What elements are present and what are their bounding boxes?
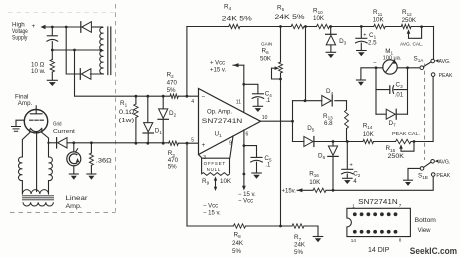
resistor R1 <box>119 96 138 143</box>
wire: tube cathode center lead <box>36 132 38 192</box>
tube grid dashes <box>30 119 44 121</box>
svg-text:Bottom: Bottom <box>415 218 436 224</box>
heater choke coil right <box>49 157 53 194</box>
wire: R16 to S1B peak contact <box>326 176 433 190</box>
resistor R11 <box>373 9 386 29</box>
svg-text:10K: 10K <box>363 131 375 138</box>
wire: D5 branch <box>293 141 434 143</box>
switch S1A <box>414 55 453 79</box>
R9 wiper to -Vcc <box>202 176 232 191</box>
DIP pins top row (1-7) <box>353 212 397 216</box>
wire: S1B common to ground <box>408 168 420 180</box>
switch linkage dashed <box>424 64 426 161</box>
svg-text:AVG.: AVG. <box>438 159 450 165</box>
svg-text:4: 4 <box>191 99 194 105</box>
resistor 10 ohm 10 w <box>31 50 55 80</box>
label: -15v -Vcc (pin 6) <box>238 192 256 204</box>
svg-text:SeekIC.com: SeekIC.com <box>410 246 457 256</box>
diode D6 <box>318 142 338 191</box>
transformer T1 primary coil <box>100 27 104 73</box>
rectifier diode top <box>80 22 82 33</box>
svg-text:+: + <box>350 162 353 168</box>
svg-text:10: 10 <box>262 115 268 121</box>
wire: D4 branch <box>293 100 347 102</box>
resistor R2 <box>167 72 179 99</box>
wire: output node vertical <box>292 101 294 142</box>
svg-text:1: 1 <box>352 203 355 208</box>
wire: sense line to R3 <box>67 142 169 144</box>
pin 10 output lead <box>261 115 293 121</box>
DIP pins bottom row (8-14) <box>353 230 397 234</box>
op-amp U1 <box>199 89 261 155</box>
ground: .36 ohm resistor <box>87 173 96 175</box>
wire: non-inverting input (pin 5) <box>178 142 198 144</box>
svg-text:Op. Amp.: Op. Amp. <box>207 109 232 115</box>
pot R15 PEAK CAL <box>386 131 421 160</box>
ground: C1 <box>357 50 367 52</box>
resistor R14 <box>363 123 375 144</box>
wire: S1A peak contact to R15 <box>432 77 434 142</box>
capacitor C5 <box>244 146 272 173</box>
svg-text:PEAK: PEAK <box>439 73 453 79</box>
svg-text:− 15 v.: − 15 v. <box>203 211 221 217</box>
label: Grid Current <box>53 122 75 135</box>
rectifier diode bottom <box>79 69 81 80</box>
wire: center-tap sense to op-amp <box>75 50 171 96</box>
svg-text:10K: 10K <box>220 178 232 185</box>
label: -Vcc -15v (R9) <box>203 204 221 217</box>
svg-text:AVG. CAL.: AVG. CAL. <box>400 41 423 47</box>
svg-text:SN72741N: SN72741N <box>358 197 398 206</box>
tube plate <box>30 106 42 114</box>
resistor R5 <box>275 5 306 29</box>
junction dots: cathode sense line <box>47 141 93 144</box>
peak detector ladder verticals <box>376 68 408 114</box>
svg-text:Linear: Linear <box>66 195 88 202</box>
wire: HV supply + output rail <box>41 25 103 29</box>
wire: R6 to bottom rail <box>280 79 282 226</box>
svg-text:Amp.: Amp. <box>66 203 83 210</box>
diode D1 <box>143 96 162 143</box>
DIP-14 body <box>347 208 411 236</box>
svg-text:− 15 v.: − 15 v. <box>238 192 256 198</box>
svg-text:24K: 24K <box>294 242 306 249</box>
wire: inverting input (pin 4) <box>178 95 198 97</box>
svg-text:14 DIP: 14 DIP <box>368 247 390 254</box>
wire: rail to S1A AVG contact <box>433 27 435 60</box>
resistor .36 ohm <box>89 143 112 174</box>
meter M grid-current <box>67 143 81 174</box>
svg-text:+: + <box>32 23 36 30</box>
wire: +15v supply to R16 <box>282 188 314 194</box>
junction dot: C1 node <box>360 25 363 28</box>
pin 9 offset lead <box>229 136 233 158</box>
svg-text:+: + <box>363 33 366 39</box>
capacitor C3 <box>376 81 408 98</box>
wire: pin5 node to bottom rail <box>186 143 188 226</box>
svg-text:250K: 250K <box>388 153 405 160</box>
svg-text:View: View <box>418 228 432 234</box>
wire: grid current line <box>49 142 57 144</box>
ground: C4 <box>253 105 263 107</box>
junction dot: R12 bracket <box>420 25 423 28</box>
svg-text:+15 v.: +15 v. <box>210 68 226 74</box>
ground: D3 <box>326 51 336 53</box>
junction dots: output node <box>291 99 306 122</box>
wire: meter plus to switch <box>397 67 420 69</box>
tube grid lead and ground <box>12 120 25 131</box>
svg-text:−: − <box>202 93 206 100</box>
capacitor C2 <box>342 142 361 186</box>
svg-text:5%: 5% <box>294 249 303 256</box>
gain pot R6 <box>260 27 283 80</box>
resistor R4 <box>222 4 253 29</box>
svg-text:PEAK CAL.: PEAK CAL. <box>392 131 420 137</box>
svg-text:100 μa.: 100 μa. <box>383 56 402 62</box>
wire: bottom feedback rail <box>187 226 318 236</box>
capacitor C-filter <box>47 27 58 50</box>
svg-text:− Vcc: − Vcc <box>238 198 253 204</box>
svg-text:+ Vcc: + Vcc <box>210 60 225 66</box>
junction dots: HV rectifier nodes <box>51 26 103 52</box>
svg-text:0.1Ω: 0.1Ω <box>119 109 135 116</box>
svg-text:NULL: NULL <box>207 167 222 172</box>
svg-text:250K: 250K <box>402 17 417 24</box>
wire: feedback left vertical <box>186 27 188 97</box>
diode D2 <box>158 96 177 143</box>
svg-text:Supply: Supply <box>12 35 28 42</box>
svg-text:Amp.: Amp. <box>18 100 33 107</box>
resistor R10 <box>313 8 330 29</box>
svg-text:24K 5%: 24K 5% <box>275 14 306 21</box>
transformer T2 top winding <box>22 190 48 194</box>
svg-text:6: 6 <box>246 131 249 137</box>
label: High Voltage Supply <box>12 22 36 42</box>
ground: C5 <box>252 172 261 174</box>
junction dots: D5/R13 net <box>332 140 416 143</box>
svg-text:.1: .1 <box>265 163 271 169</box>
junction dots: non-inverting input node <box>135 142 189 145</box>
svg-text:7: 7 <box>399 203 402 208</box>
capacitor C4 <box>244 84 272 106</box>
wire: center-tap return <box>52 49 101 51</box>
svg-text:24K 5%: 24K 5% <box>222 16 253 23</box>
svg-text:14: 14 <box>351 238 357 243</box>
svg-text:6.8: 6.8 <box>324 120 333 127</box>
diode D5 <box>304 125 315 147</box>
svg-text:SN72741N: SN72741N <box>202 118 243 125</box>
svg-text:10K: 10K <box>373 17 385 24</box>
DIP pin labels <box>351 203 402 243</box>
tube V1 Final Amp envelope <box>24 110 47 133</box>
wire: meter minus to ground <box>361 60 383 79</box>
pin 11 V+ lead <box>236 65 244 112</box>
svg-text:470: 470 <box>167 80 178 87</box>
svg-text:AVG.: AVG. <box>439 59 451 65</box>
svg-text:11: 11 <box>236 100 241 106</box>
pin 6 V- lead <box>242 130 249 191</box>
diode D4 <box>322 88 334 106</box>
ground: S1B <box>404 179 413 181</box>
ground: meter minus <box>356 79 365 81</box>
label: Bottom View <box>415 218 436 234</box>
svg-text:24K: 24K <box>232 240 244 247</box>
svg-text:10K: 10K <box>313 15 325 22</box>
pot R12 AVG CAL <box>400 9 423 47</box>
svg-text:PEAK: PEAK <box>436 173 450 179</box>
svg-text:GAIN: GAIN <box>261 41 272 46</box>
svg-text:4: 4 <box>353 178 357 185</box>
wire: rail to D4 branch <box>305 27 307 101</box>
heater choke coil left <box>19 157 23 194</box>
junction dots: meter terminals <box>375 66 409 69</box>
svg-text:5%: 5% <box>167 87 176 94</box>
resistor R13 <box>323 101 349 142</box>
tube cathode arc <box>30 128 41 131</box>
wire: rectifier cathode bus <box>66 27 103 74</box>
resistor R16 <box>309 170 326 192</box>
svg-text:OFFSET: OFFSET <box>204 161 226 166</box>
junction dot: V+ / C4 node <box>242 83 245 86</box>
svg-text:(1w): (1w) <box>119 118 135 124</box>
svg-text:2.5: 2.5 <box>368 39 377 46</box>
resistor R3 <box>168 141 179 171</box>
junction dots: inverting input node <box>135 95 189 98</box>
diode D7 <box>376 109 408 127</box>
junction dot: D3 node <box>329 25 332 28</box>
junction dot: R5/R10/D4 node <box>304 25 307 28</box>
ground: grid meter <box>69 173 78 175</box>
junction dots: R6 wiper and bottom <box>279 78 282 228</box>
label: +Vcc +15v arrow <box>210 60 244 73</box>
svg-text:9: 9 <box>229 141 232 147</box>
transformer T1 core <box>108 27 111 75</box>
wire: top feedback rail <box>187 26 434 28</box>
svg-text:8: 8 <box>399 238 402 243</box>
svg-text:Grid: Grid <box>53 122 62 128</box>
transformer T2 bottom winding <box>23 202 53 206</box>
svg-text:5%: 5% <box>232 248 241 255</box>
svg-text:5%: 5% <box>168 164 177 171</box>
pin 3 offset lead <box>199 155 207 161</box>
ground: R7 <box>313 236 323 238</box>
ground: 10 ohm resistor <box>47 79 57 81</box>
svg-text:.36Ω: .36Ω <box>96 158 112 165</box>
switch S1B <box>418 159 451 180</box>
svg-text:50K: 50K <box>260 55 272 62</box>
ground: C2 <box>343 177 353 179</box>
resistor R7 <box>292 224 306 256</box>
svg-text:5: 5 <box>191 138 194 144</box>
svg-text:+15v.: +15v. <box>282 188 297 194</box>
svg-text:+: + <box>202 142 206 149</box>
transformer T2 core <box>22 196 53 200</box>
capacitor C1 <box>356 27 378 51</box>
junction dot: D6/R16 node <box>332 189 335 192</box>
wire: tube left heater leg <box>22 130 29 158</box>
label: Final Amp. <box>15 94 33 107</box>
meter M1 <box>383 48 402 74</box>
offset null box and R9 pot <box>202 158 230 175</box>
dashed enclosure: linear amp section <box>8 4 116 213</box>
label: Linear Amp. <box>66 195 88 210</box>
junction dot: R4/R5/R6 node <box>279 25 282 28</box>
grid current sense diode <box>56 138 58 148</box>
wire: tube right heater leg <box>42 130 49 158</box>
diode D3 <box>326 27 347 53</box>
svg-text:−: − <box>373 60 377 66</box>
svg-text:10K: 10K <box>309 179 321 186</box>
svg-text:Current: Current <box>53 129 75 135</box>
svg-text:.01: .01 <box>395 93 404 99</box>
svg-text:− Vcc: − Vcc <box>203 204 218 210</box>
svg-text:.1: .1 <box>265 98 271 104</box>
resistor R8 <box>232 224 246 255</box>
svg-text:10 w.: 10 w. <box>31 68 46 75</box>
